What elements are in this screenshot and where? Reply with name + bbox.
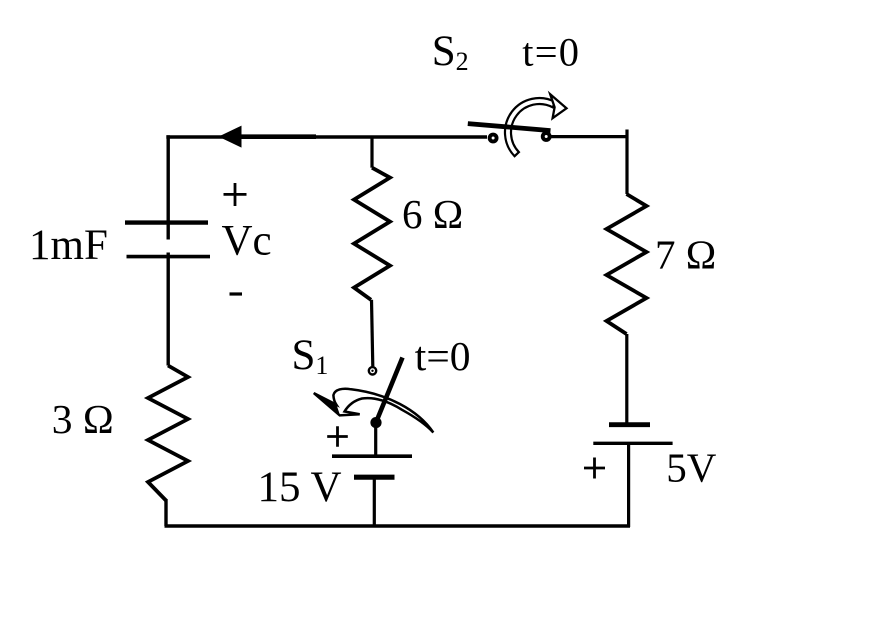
switch S2 rotation arrow bbox=[505, 94, 567, 156]
label + for 5V bbox=[584, 458, 605, 479]
svg-text:1mF: 1mF bbox=[29, 222, 108, 269]
switch S1 blade bbox=[376, 358, 403, 423]
battery 5V bbox=[593, 425, 672, 444]
wire right vertical upper bbox=[625, 130, 628, 195]
wire battery 15V to bottom bbox=[373, 477, 376, 526]
resistor 6 ohm bbox=[354, 168, 390, 300]
label 6 ohm bbox=[402, 191, 463, 237]
switch S2 right contact bbox=[541, 131, 552, 142]
label 15 V bbox=[258, 464, 342, 511]
resistor 7 ohm bbox=[607, 194, 647, 334]
wire left bottom stub bbox=[164, 499, 167, 526]
label Vc bbox=[222, 217, 272, 264]
svg-text:7 Ω: 7 Ω bbox=[655, 231, 716, 277]
label + for 15V bbox=[327, 426, 348, 446]
wire top right segment bbox=[551, 135, 628, 138]
switch S2 left contact bbox=[488, 133, 499, 144]
label 3 ohm bbox=[52, 396, 114, 442]
wire middle branch top bbox=[370, 137, 373, 168]
switch S2 blade bbox=[468, 124, 551, 131]
switch S1 contact circle bbox=[369, 367, 376, 374]
wire left vertical upper bbox=[166, 135, 169, 239]
battery 15V bbox=[332, 456, 412, 477]
wire 7 ohm to battery 5V bbox=[625, 334, 628, 423]
label t=0 for S1 bbox=[415, 333, 471, 379]
label S1 bbox=[292, 332, 329, 380]
wire top left segment bbox=[166, 135, 487, 138]
current arrow on top wire bbox=[219, 126, 317, 148]
label + for Vc bbox=[224, 183, 247, 206]
wire left vertical lower bbox=[166, 253, 169, 366]
label t=0 for S2 bbox=[522, 30, 580, 75]
label 5V bbox=[666, 445, 717, 491]
svg-text:t=0: t=0 bbox=[415, 333, 471, 379]
svg-text:3 Ω: 3 Ω bbox=[52, 396, 114, 442]
wire switch S1 to battery bbox=[374, 423, 377, 458]
capacitor C 1mF bbox=[125, 223, 210, 257]
svg-text:15 V: 15 V bbox=[258, 464, 342, 511]
svg-text:t=0: t=0 bbox=[522, 30, 580, 75]
label 7 ohm bbox=[655, 231, 716, 277]
label 1mF bbox=[29, 222, 108, 269]
wire bottom bbox=[165, 524, 631, 527]
svg-text:6 Ω: 6 Ω bbox=[402, 191, 463, 237]
wire middle branch to switch bbox=[372, 300, 373, 367]
resistor 3 ohm bbox=[148, 366, 188, 501]
wire battery 5V to bottom bbox=[627, 443, 630, 527]
label - for Vc bbox=[230, 292, 243, 295]
svg-text:Vc: Vc bbox=[222, 217, 272, 264]
switch S1 rotation arrow bbox=[313, 389, 433, 433]
switch S1 junction dot bbox=[370, 417, 381, 428]
label S2 bbox=[432, 28, 469, 76]
svg-text:5V: 5V bbox=[666, 445, 717, 491]
